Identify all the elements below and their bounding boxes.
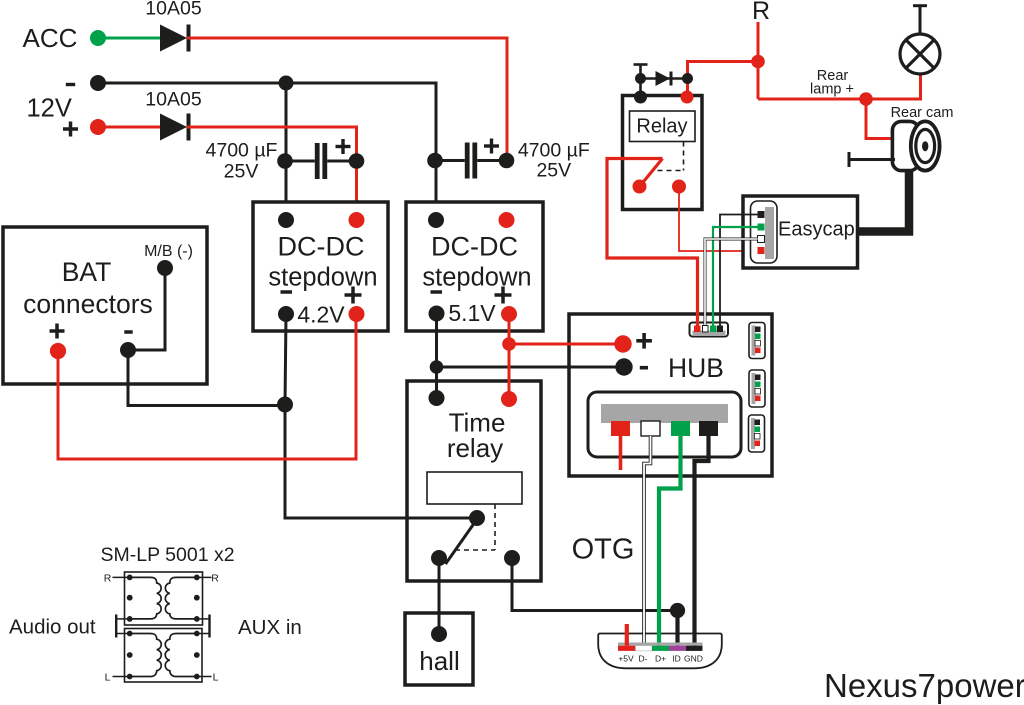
OTG pad GND (black)	[686, 646, 703, 651]
DC-DC stepdown U1 (4.2V) box	[253, 202, 388, 331]
wire D+ to OTG (green)	[659, 436, 681, 646]
wire switched 5V relay to HUB (red)	[607, 159, 698, 328]
pin time relay common (pivot)	[469, 510, 485, 526]
label U2 output plus	[495, 287, 512, 304]
terminal rear cam ground	[849, 152, 895, 167]
USB-A pin VBUS (red)	[611, 421, 630, 436]
Easycap box	[743, 196, 858, 268]
pin hall	[431, 626, 447, 642]
capacitor C2 4700uF	[435, 143, 507, 179]
wire D- to OTG (white)	[644, 436, 651, 646]
svg-text:12V: 12V	[27, 95, 72, 123]
wire GND stub into plug (black)	[692, 632, 696, 646]
T1 pin stubs	[113, 577, 212, 619]
BAT connectors box	[3, 227, 207, 384]
node C2 positive	[499, 153, 515, 169]
svg-text:M/B (-): M/B (-)	[144, 243, 193, 260]
pin relay common	[633, 180, 647, 194]
transformer T2 box	[125, 629, 203, 683]
junction 5V plus	[502, 337, 516, 351]
node BAT minus	[120, 342, 136, 358]
pin U2 out+	[501, 306, 517, 322]
time relay display window	[427, 472, 522, 504]
svg-text:4700 µF: 4700 µF	[206, 140, 278, 162]
svg-text:4700 µF: 4700 µF	[518, 140, 590, 162]
label U1 output plus	[345, 287, 362, 304]
pin U1 Vin-	[278, 212, 294, 228]
node OTG ID	[670, 603, 685, 618]
node ACC terminal	[90, 30, 106, 46]
HUB upstream pin green	[710, 326, 717, 333]
pin relay coil plus	[681, 91, 694, 104]
wire R down to junction (red)	[757, 22, 760, 99]
svg-text:Relay: Relay	[636, 116, 687, 138]
svg-text:10A05: 10A05	[145, 0, 202, 20]
HUB upstream pin white	[703, 326, 709, 333]
wire reverse feed to relay coil (red)	[688, 62, 759, 97]
svg-text:BAT: BAT	[62, 257, 112, 287]
svg-text:lamp +: lamp +	[810, 82, 854, 98]
svg-text:hall: hall	[419, 646, 459, 676]
svg-text:ID: ID	[672, 654, 681, 664]
diode D3 (relay flyback)	[656, 71, 672, 86]
svg-text:stepdown: stepdown	[422, 264, 531, 292]
label HUB plus	[636, 333, 652, 349]
junction 5V minus	[430, 360, 444, 374]
wire contact A to hall sensor	[438, 558, 441, 634]
svg-text:D-: D-	[639, 654, 648, 664]
transformer T2 secondary coil	[165, 634, 197, 677]
ground bar left	[115, 615, 117, 638]
polarity plus C2	[484, 139, 499, 154]
ground bar right	[208, 615, 210, 638]
wire to OTG ID pin	[511, 609, 678, 612]
junction minus rail	[279, 76, 294, 91]
label BAT minus	[124, 330, 132, 334]
T1 terminal dots	[127, 575, 200, 622]
wire U1 out- down through junction to time relay pivot	[285, 314, 477, 518]
pin U1 out+	[349, 306, 365, 322]
wire BAT minus to junction	[128, 350, 285, 406]
pin time relay plus	[501, 391, 517, 407]
svg-text:Nexus7power: Nexus7power	[824, 667, 1024, 704]
svg-text:5.1V: 5.1V	[448, 300, 496, 326]
polarity plus C1	[336, 139, 351, 154]
wire D- stub into plug (white)	[642, 632, 646, 646]
USB port P1	[749, 323, 765, 359]
transformer T1 primary coil	[130, 577, 161, 619]
OTG pad D+ (green)	[652, 646, 669, 651]
wire 5V minus to HUB	[437, 366, 625, 369]
relay label box	[630, 111, 696, 142]
svg-text:L: L	[105, 672, 111, 684]
label U1 output minus	[281, 290, 293, 294]
pin time relay minus	[429, 390, 445, 406]
HUB upstream connector	[690, 323, 729, 337]
wire D1 to node ACCR (red)	[187, 38, 507, 161]
Time relay box	[407, 381, 541, 581]
wire 5V plus to HUB (red)	[509, 343, 623, 346]
wire relay diode	[641, 77, 688, 80]
Easycap pin black	[758, 211, 765, 218]
capacitor C1 4700uF	[285, 143, 357, 179]
wire diode anode to relay coil pin	[639, 79, 642, 98]
svg-text:stepdown: stepdown	[268, 264, 377, 292]
hall sensor box	[405, 613, 473, 685]
svg-text:Audio out: Audio out	[9, 616, 96, 639]
wire BAT minus rail into time relay pivot	[380, 517, 477, 520]
pin relay coil minus	[634, 91, 647, 104]
Easycap pin red	[758, 247, 765, 254]
wire M/B to BAT minus	[128, 268, 165, 350]
terminal lamp top	[913, 6, 927, 34]
OTG pad D- (white)	[636, 646, 653, 651]
svg-text:connectors: connectors	[23, 289, 153, 319]
OTG contact strip	[618, 643, 703, 646]
pin U2 Vin+	[499, 212, 515, 228]
svg-text:25V: 25V	[224, 161, 259, 183]
svg-text:SM-LP 5001 x2: SM-LP 5001 x2	[101, 544, 235, 566]
OTG pad +5V (red)	[618, 646, 636, 651]
wire 12V minus rail	[98, 83, 436, 222]
terminal relay coil T-bar	[634, 65, 648, 79]
OTG plug shell	[598, 634, 722, 669]
wire 5V plus into time relay (red)	[508, 344, 511, 399]
wire contact B down	[511, 558, 514, 612]
time relay dashed actuator link	[455, 504, 495, 550]
wire U2 out- to HUB minus	[435, 314, 438, 399]
Easycap pin white	[758, 236, 765, 243]
wire GND to OTG (black)	[695, 436, 709, 646]
pin time relay contact B	[504, 550, 520, 566]
node HUB minus	[615, 358, 632, 375]
USB-A pin D- (white)	[641, 421, 660, 436]
label BAT plus	[50, 324, 65, 339]
USB port P3	[749, 415, 765, 452]
label HUB minus	[640, 366, 648, 370]
USB-A downstream connector	[588, 392, 741, 457]
Easycap connector strip	[765, 207, 774, 259]
svg-text:4.2V: 4.2V	[297, 302, 345, 328]
svg-text:10A05: 10A05	[145, 89, 202, 111]
wire VBUS stub (red, unconnected)	[619, 436, 623, 470]
wire +5V stub (red, unconnected)	[625, 624, 629, 646]
svg-text:Rear cam: Rear cam	[891, 105, 954, 121]
transformer T1 box	[125, 572, 203, 625]
node M/B (-)	[157, 260, 173, 276]
wire minus rail branch down to C1	[285, 83, 288, 222]
label U2 output minus	[431, 290, 443, 294]
relay switch arm (red)	[640, 159, 663, 187]
svg-text:ACC: ACC	[23, 23, 78, 53]
svg-text:DC-DC: DC-DC	[278, 232, 365, 262]
node diode anode	[635, 73, 646, 84]
transformer T2 primary coil	[130, 634, 162, 677]
pin relay NO	[672, 180, 686, 194]
wire rear cam video to Easycap (thick)	[858, 170, 910, 232]
wire D2 to DC-DC1 plus (red)	[187, 127, 357, 222]
wire BAT plus to U1 out+ (red)	[58, 314, 356, 459]
pin U2 Vin-	[428, 212, 444, 228]
wire junction to rear cam (red)	[866, 99, 895, 139]
svg-text:OTG: OTG	[572, 534, 635, 566]
Easycap pin green	[758, 224, 765, 231]
wire U2 out+ to HUB plus (red)	[508, 314, 511, 399]
node 12V plus terminal	[90, 119, 106, 135]
wire ACC to diode D1 (green)	[98, 37, 160, 40]
DC-DC stepdown U2 (5.1V) box	[406, 202, 543, 331]
relay actuator dashed link	[658, 142, 684, 171]
T2 terminal dots	[127, 631, 200, 680]
OTG pad ID (purple)	[669, 646, 686, 651]
USB-A tongue	[601, 404, 728, 423]
label 12V minus	[66, 83, 75, 86]
rear cam body	[892, 121, 939, 170]
node HUB plus	[614, 335, 631, 352]
wire 12V plus to diode D2 (red)	[98, 126, 160, 129]
pin U2 out-	[429, 306, 445, 322]
pin time relay contact A	[431, 550, 447, 566]
svg-text:25V: 25V	[536, 160, 571, 182]
svg-text:D+: D+	[655, 654, 666, 664]
node BAT plus	[50, 343, 66, 359]
junction R	[751, 55, 765, 69]
svg-text:AUX in: AUX in	[238, 616, 302, 639]
node C1 positive	[349, 153, 365, 169]
USB port P2	[749, 370, 765, 407]
node C1 negative	[277, 153, 293, 169]
svg-text:GND: GND	[684, 654, 703, 664]
svg-text:DC-DC: DC-DC	[431, 232, 518, 262]
time relay switch arm	[446, 519, 478, 565]
pin U1 out-	[278, 306, 294, 322]
svg-text:L: L	[213, 672, 219, 684]
wire Easycap black to HUB connector	[720, 215, 758, 329]
HUB upstream pin black	[717, 326, 723, 333]
wire 5V minus into time relay	[435, 345, 438, 398]
transformer T1 secondary coil	[165, 577, 196, 619]
lamp L1 (rear lamp)	[900, 34, 940, 74]
svg-text:relay: relay	[447, 433, 503, 463]
wire relay NO to Easycap power (thin red)	[679, 187, 758, 252]
Easycap connector housing	[751, 201, 778, 263]
svg-text:R: R	[104, 573, 112, 585]
svg-text:+5V: +5V	[618, 654, 634, 664]
wire Easycap white to HUB connector	[705, 239, 758, 328]
USB-A pin GND (black)	[699, 421, 718, 436]
wire Easycap green to HUB connector	[713, 227, 758, 328]
diode D1 10A05	[160, 25, 189, 52]
label 12V plus	[63, 122, 78, 137]
HUB box	[569, 314, 772, 476]
HUB upstream connector strip	[693, 331, 726, 337]
USB-A pin D+ (green)	[671, 421, 690, 436]
svg-text:R: R	[211, 573, 219, 585]
svg-text:Easycap: Easycap	[778, 219, 855, 241]
diode D2 10A05	[160, 114, 189, 141]
node 12V minus terminal	[90, 75, 106, 91]
relay K1 box	[623, 96, 703, 210]
wire D+ stub into plug (green)	[657, 632, 661, 646]
svg-text:R: R	[752, 0, 770, 25]
HUB upstream pin red	[694, 326, 701, 333]
node diode cathode	[682, 73, 693, 84]
junction BAT minus / U1 out-	[277, 397, 293, 413]
node C2 negative	[427, 153, 443, 169]
junction rear lamp	[859, 92, 873, 106]
T2 pin stubs	[113, 634, 212, 677]
wire R to rear lamp and cam (red)	[758, 73, 921, 99]
pin U1 Vin+	[349, 212, 365, 228]
wire ID to plug pad	[675, 611, 679, 647]
svg-text:HUB: HUB	[668, 353, 724, 383]
